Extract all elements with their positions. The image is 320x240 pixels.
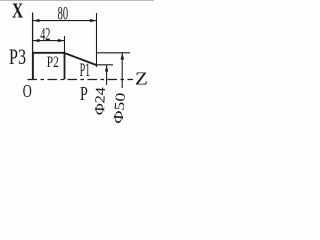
arrow 42 left — [33, 39, 39, 42]
svg-text:P1: P1 — [80, 61, 91, 81]
svg-text:X: X — [12, 0, 23, 23]
X axis vertical line — [32, 13, 34, 80]
svg-text:Φ24: Φ24 — [93, 87, 109, 116]
part top edge (Phi50 cylinder) — [33, 52, 65, 54]
svg-text:P: P — [80, 83, 88, 105]
part left edge on X axis — [32, 53, 34, 80]
Phi50 extension line — [97, 52, 131, 54]
part feature line x=64.5 down to axis — [64, 53, 66, 80]
arrow Phi50 up — [121, 53, 125, 59]
Phi50 dimension line — [121, 53, 123, 88]
arrow 42 right — [58, 39, 64, 42]
svg-text:O: O — [23, 81, 32, 101]
arrow Phi24 up — [105, 65, 108, 71]
dimension line 80 — [33, 20, 96, 22]
arrow 80 right — [90, 19, 96, 22]
svg-text:80: 80 — [58, 5, 69, 25]
Phi24 dimension line — [106, 65, 108, 85]
arrow 80 left — [33, 19, 39, 22]
svg-text:42: 42 — [40, 24, 50, 44]
Phi24 extension line — [97, 64, 114, 66]
faint scan border top — [0, 0, 154, 2]
extension line x=64.5 above part — [64, 36, 66, 53]
svg-text:Φ50: Φ50 — [111, 92, 129, 124]
taper P2 to P1 — [65, 53, 97, 65]
svg-text:P2: P2 — [47, 54, 59, 71]
svg-text:Z: Z — [135, 68, 148, 88]
extension line x=96.5 (right end, 80) — [96, 13, 98, 67]
Z centerline dash-dot — [28, 79, 134, 81]
svg-text:P3: P3 — [9, 44, 26, 69]
dimension line 42 — [33, 40, 64, 42]
